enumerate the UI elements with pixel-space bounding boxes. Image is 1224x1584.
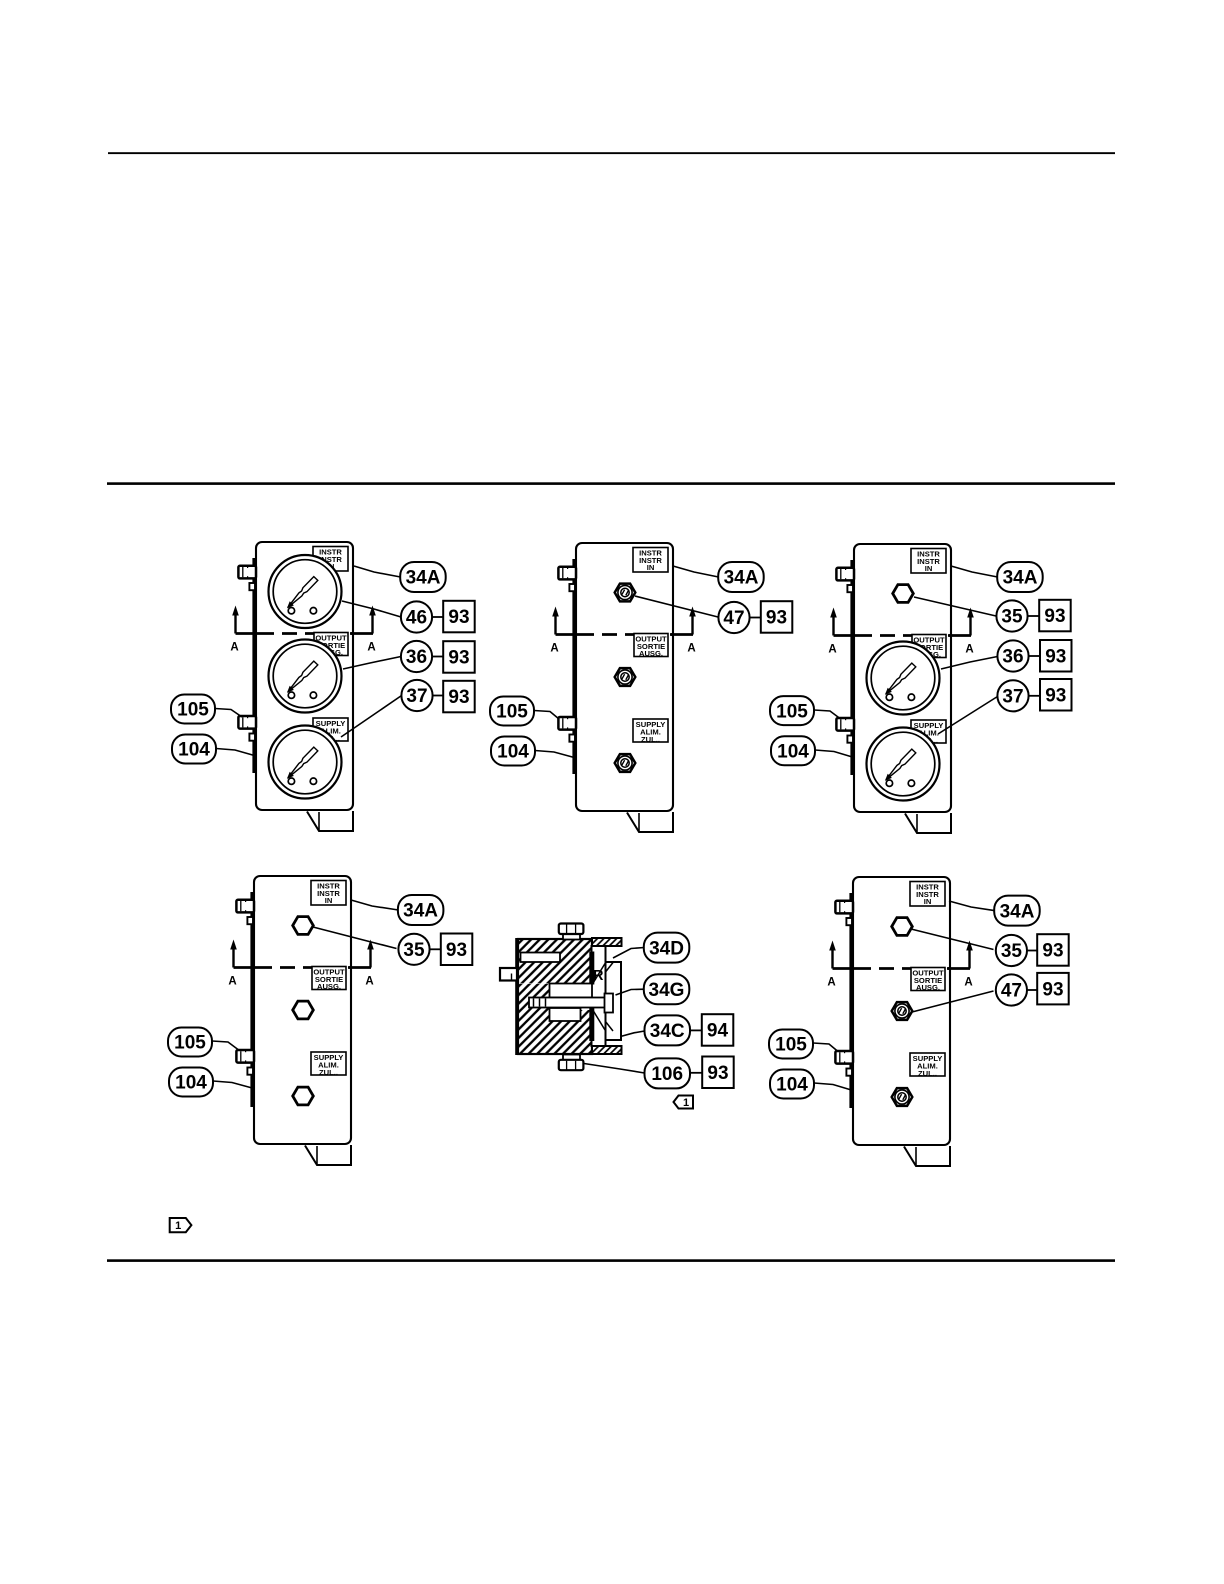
link 47-93 view 6	[1027, 989, 1038, 991]
svg-text:105: 105	[496, 702, 528, 723]
callout 34A view 4	[398, 895, 444, 925]
leader to 34D view 5	[613, 948, 644, 959]
callout 37 view 1	[401, 680, 432, 711]
label OUTPUT SORTIE AUSG view 2	[634, 634, 668, 659]
leader to 47 view 6	[912, 991, 994, 1012]
svg-text:93: 93	[446, 940, 467, 961]
svg-text:47: 47	[723, 608, 744, 629]
fitting middle view 6	[892, 1002, 913, 1020]
section top bolt view 5	[559, 924, 584, 940]
svg-text:34A: 34A	[724, 568, 759, 589]
svg-text:34A: 34A	[406, 568, 441, 589]
section top lip of flange 34D view 5	[592, 938, 622, 946]
link 35-93 view 6	[1027, 950, 1038, 952]
svg-text:93: 93	[1042, 941, 1063, 962]
svg-text:93: 93	[448, 687, 469, 708]
leader to 34A view 6	[949, 901, 994, 911]
svg-text:93: 93	[707, 1063, 728, 1084]
svg-text:93: 93	[448, 607, 469, 628]
svg-text:104: 104	[178, 740, 210, 761]
link 34C-94 view 5	[690, 1029, 703, 1031]
leader to 36 view 1	[343, 657, 401, 670]
section outer cap view 5	[606, 962, 622, 1040]
svg-text:47: 47	[1001, 981, 1022, 1002]
svg-text:104: 104	[777, 742, 809, 763]
leader to 104 view 4	[213, 1081, 254, 1089]
port fitting upper view 6	[835, 900, 853, 913]
leader to 34A view 4	[351, 900, 398, 910]
svg-text:46: 46	[406, 608, 427, 629]
mounting foot view 4	[305, 1145, 351, 1165]
callout 47 view 6	[996, 974, 1027, 1005]
section body block hatched view 5	[518, 939, 592, 1054]
port boss upper view 3	[847, 585, 853, 592]
callout 46 view 1	[401, 601, 432, 632]
port boss upper view 1	[249, 583, 255, 590]
gauge middle view 3	[867, 642, 940, 715]
section center plug 34G view 5	[550, 984, 593, 998]
hex upper view 3	[893, 585, 914, 603]
svg-text:A: A	[828, 644, 836, 656]
callout 104 view 1	[172, 735, 216, 764]
section bottom bolt 106 view 5	[559, 1055, 584, 1071]
port fitting lower view 6	[835, 1051, 853, 1064]
panel body view 6	[853, 877, 950, 1145]
port fitting lower view 4	[236, 1050, 254, 1063]
svg-text:93: 93	[1044, 606, 1065, 627]
callout 93 for 47 view 6	[1037, 973, 1069, 1005]
leader to 34C view 5	[621, 1031, 645, 1037]
svg-text:104: 104	[175, 1073, 207, 1094]
port boss upper view 4	[247, 917, 253, 924]
section letter R marking view 5	[593, 968, 604, 984]
leader to 34A view 1	[354, 566, 401, 577]
svg-text:A: A	[550, 643, 558, 655]
panel body view 4	[254, 876, 351, 1144]
leader to 35 view 4	[313, 927, 397, 949]
leader to 105 view 6	[813, 1043, 838, 1052]
leader to 104 view 1	[216, 749, 256, 757]
svg-text:34D: 34D	[649, 938, 684, 959]
svg-text:A: A	[964, 977, 972, 989]
link 47-93 view 2	[750, 617, 761, 619]
link 46-93 view 1	[432, 616, 443, 618]
mounting plate edge view 4	[250, 892, 254, 1107]
callout 93 for 37 view 1	[443, 681, 475, 713]
callout 93 for 35 view 4	[441, 934, 473, 966]
callout 104 view 4	[169, 1068, 213, 1097]
section left tab view 5	[500, 968, 517, 981]
svg-text:A: A	[965, 644, 973, 656]
hex upper view 6	[892, 918, 913, 936]
callout 35 view 3	[996, 600, 1027, 631]
svg-text:105: 105	[177, 700, 209, 721]
leader to 35 view 3	[914, 597, 996, 616]
leader to 34G view 5	[616, 989, 645, 995]
svg-text:34C: 34C	[650, 1021, 685, 1042]
hex middle view 4	[293, 1001, 314, 1019]
leader to 37 view 3	[938, 697, 998, 735]
section line A-A view 6	[827, 941, 972, 989]
leader to 104 view 2	[535, 751, 576, 759]
svg-text:35: 35	[1001, 607, 1023, 628]
callout 34A view 6	[994, 896, 1039, 926]
mounting plate edge view 1	[252, 558, 256, 773]
svg-text:A: A	[228, 976, 236, 988]
gauge middle view 1	[269, 640, 342, 713]
callout 93 for 47 view 2	[761, 601, 793, 633]
leader to 37 view 1	[341, 696, 402, 738]
port boss lower view 3	[847, 736, 853, 743]
svg-text:R: R	[593, 968, 604, 984]
hex lower view 4	[293, 1087, 314, 1105]
top horizontal rule	[108, 152, 1115, 154]
mounting foot view 6	[904, 1146, 950, 1166]
svg-text:AUSG.: AUSG.	[317, 982, 341, 991]
svg-text:104: 104	[497, 742, 529, 763]
link 37-93 view 3	[1029, 695, 1041, 697]
leader to 34A view 2	[673, 566, 719, 577]
label OUTPUT SORTIE AUSG view 1	[314, 633, 348, 658]
label SUPPLY ALIM ZUL view 3	[911, 720, 946, 745]
leader to 106 view 5	[584, 1064, 645, 1074]
svg-text:37: 37	[406, 686, 427, 707]
callout 47 view 2	[718, 602, 749, 633]
gauge lower view 1	[269, 726, 342, 799]
port fitting lower view 3	[836, 718, 854, 731]
svg-text:1: 1	[175, 1220, 181, 1232]
callout 93 for 46 view 1	[443, 601, 475, 633]
fitting middle view 2	[615, 668, 636, 686]
section mounting plate edge view 5	[515, 938, 519, 1055]
svg-text:ZUL..: ZUL..	[319, 1068, 338, 1077]
svg-text:34G: 34G	[649, 980, 685, 1001]
hex upper view 4	[293, 917, 314, 935]
mounting plate edge view 2	[572, 559, 576, 774]
section line A-A view 3	[828, 608, 973, 656]
svg-text:34A: 34A	[1003, 568, 1038, 589]
callout 105 view 3	[770, 696, 814, 725]
label SUPPLY ALIM ZUL view 6	[910, 1053, 945, 1078]
port boss upper view 2	[569, 584, 575, 591]
label SUPPLY ALIM ZUL view 1	[313, 718, 348, 743]
callout 34A view 3	[997, 562, 1042, 592]
svg-text:A: A	[230, 642, 238, 654]
label INSTR IN view 1	[313, 547, 348, 572]
leader to 104 view 6	[814, 1083, 853, 1091]
label INSTR IN view 6	[910, 882, 945, 907]
label OUTPUT SORTIE AUSG view 4	[312, 967, 346, 992]
section line A-A view 4	[228, 940, 373, 988]
callout 104 view 3	[771, 736, 815, 765]
label OUTPUT SORTIE AUSG view 3	[912, 635, 946, 660]
callout 34A view 2	[718, 562, 764, 592]
svg-text:A: A	[365, 976, 373, 988]
fitting lower view 2	[615, 754, 636, 772]
callout 94 view 5	[702, 1014, 734, 1045]
svg-text:93: 93	[448, 648, 469, 669]
callout 105 view 4	[168, 1028, 212, 1057]
callout 93 for 106 view 5	[702, 1057, 734, 1089]
label OUTPUT SORTIE AUSG view 6	[911, 968, 945, 993]
callout 106 view 5	[645, 1058, 691, 1088]
svg-text:36: 36	[406, 647, 427, 668]
link 37-93 view 1	[433, 695, 444, 697]
port fitting lower view 1	[238, 716, 256, 729]
svg-text:36: 36	[1002, 647, 1023, 668]
link 36-93 view 1	[432, 656, 443, 658]
svg-text:ZUL..: ZUL..	[641, 735, 660, 744]
leader to 47 view 2	[635, 596, 718, 617]
label SUPPLY ALIM ZUL view 2	[633, 719, 668, 744]
port fitting upper view 2	[558, 566, 576, 579]
section line A-A view 1	[230, 606, 375, 654]
callout 105 view 2	[490, 697, 534, 726]
port boss lower view 1	[249, 734, 255, 741]
callout 105 view 1	[171, 695, 215, 724]
leader to 104 view 3	[815, 750, 854, 758]
callout 93 for 35 view 3	[1039, 600, 1071, 632]
svg-text:A: A	[367, 642, 375, 654]
leader to 35 view 6	[911, 929, 994, 950]
section gasket dark joints view 5	[589, 952, 594, 1042]
callout 93 for 36 view 3	[1040, 640, 1072, 672]
callout 34D view 5	[644, 933, 690, 963]
callout 93 for 36 view 1	[443, 641, 475, 673]
section bottom lip of flange view 5	[592, 1046, 622, 1054]
mounting foot view 2	[627, 812, 673, 832]
callout 34G view 5	[644, 974, 690, 1004]
link 36-93 view 3	[1029, 655, 1041, 657]
link 35-93 view 4	[430, 948, 441, 950]
leader to 105 view 3	[814, 710, 840, 719]
svg-text:105: 105	[174, 1033, 206, 1054]
section stem 106 view 5	[529, 998, 606, 1008]
callout 35 view 6	[996, 935, 1027, 966]
port fitting upper view 4	[236, 899, 254, 912]
svg-text:1: 1	[683, 1097, 689, 1109]
port boss upper view 6	[846, 918, 852, 925]
svg-text:104: 104	[776, 1075, 808, 1096]
section flange plate 34C view 5	[592, 946, 606, 1046]
label INSTR IN view 4	[311, 881, 346, 906]
svg-text:A: A	[687, 643, 695, 655]
note flag 1 footnote	[170, 1218, 192, 1232]
svg-text:IN: IN	[925, 564, 933, 573]
callout 36 view 3	[997, 640, 1028, 671]
port fitting lower view 2	[558, 717, 576, 730]
header separator rule	[107, 482, 1115, 485]
svg-text:93: 93	[1042, 979, 1063, 1000]
mounting foot view 3	[905, 813, 951, 833]
port fitting upper view 3	[836, 567, 854, 580]
section upper gauge port channel view 5	[521, 953, 561, 963]
port boss lower view 4	[247, 1068, 253, 1075]
port boss lower view 6	[846, 1069, 852, 1076]
svg-text:105: 105	[775, 1035, 807, 1056]
label INSTR IN view 2	[633, 548, 668, 573]
section flange bore cone lines view 5	[593, 963, 614, 1032]
svg-text:37: 37	[1002, 687, 1023, 708]
mounting plate edge view 3	[850, 560, 854, 775]
leader to 46 view 1	[342, 601, 401, 617]
leader to 36 view 3	[941, 657, 998, 670]
svg-text:93: 93	[1045, 686, 1066, 707]
callout 93 for 35 view 6	[1037, 934, 1069, 966]
link 106-93 view 5	[690, 1072, 703, 1074]
svg-text:93: 93	[766, 608, 787, 629]
callout 104 view 6	[770, 1070, 814, 1099]
callout 104 view 2	[491, 737, 535, 766]
callout 35 view 4	[398, 934, 429, 965]
panel body view 3	[854, 544, 951, 812]
svg-text:35: 35	[1001, 941, 1023, 962]
svg-text:105: 105	[776, 701, 808, 722]
svg-text:35: 35	[403, 940, 425, 961]
gauge lower view 3	[867, 728, 940, 801]
footer separator rule	[107, 1259, 1115, 1262]
fitting lower view 6	[892, 1088, 913, 1106]
port boss lower view 2	[569, 735, 575, 742]
callout 105 view 6	[769, 1030, 813, 1059]
link 35-93 view 3	[1028, 615, 1040, 617]
mounting foot view 1	[307, 811, 353, 831]
section lower plug view 5	[550, 1008, 581, 1021]
svg-text:IN: IN	[647, 563, 655, 572]
section stem nut view 5	[605, 994, 614, 1013]
svg-text:94: 94	[707, 1021, 729, 1042]
gauge upper view 1	[269, 555, 342, 628]
svg-text:AUSG.: AUSG.	[639, 649, 663, 658]
note flag 1 view 5	[674, 1096, 694, 1110]
label SUPPLY ALIM ZUL view 4	[311, 1052, 346, 1077]
svg-text:ZUL..: ZUL..	[918, 1069, 937, 1078]
callout 34C view 5	[645, 1015, 691, 1045]
leader to 105 view 1	[215, 709, 242, 718]
mounting plate edge view 6	[849, 893, 853, 1108]
label INSTR IN view 3	[911, 549, 946, 574]
leader to 34A view 3	[951, 566, 998, 577]
leader to 105 view 2	[534, 711, 559, 720]
svg-text:IN: IN	[325, 896, 333, 905]
svg-text:34A: 34A	[403, 901, 438, 922]
svg-text:IN: IN	[924, 897, 932, 906]
fitting upper view 2	[615, 584, 636, 602]
svg-text:AUSG.: AUSG.	[916, 983, 940, 992]
port fitting upper view 1	[238, 565, 256, 578]
svg-text:106: 106	[651, 1064, 683, 1085]
callout 34A view 1	[400, 562, 446, 592]
callout 36 view 1	[401, 641, 432, 672]
callout 37 view 3	[997, 680, 1028, 711]
svg-text:93: 93	[1045, 647, 1066, 668]
panel body view 2	[576, 543, 673, 811]
svg-text:A: A	[827, 977, 835, 989]
panel body view 1	[256, 542, 353, 810]
callout 93 for 37 view 3	[1040, 679, 1072, 711]
section line A-A view 2	[550, 607, 695, 655]
svg-text:34A: 34A	[1000, 901, 1035, 922]
leader to 105 view 4	[212, 1041, 238, 1050]
